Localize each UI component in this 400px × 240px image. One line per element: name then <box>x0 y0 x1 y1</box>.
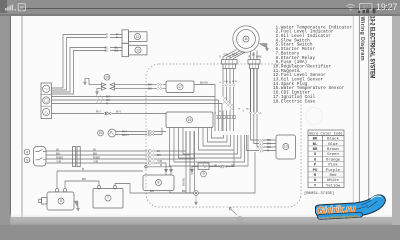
svg-text:G: G <box>215 113 217 115</box>
swoosh spray highlights <box>371 196 382 200</box>
Y/R wire to relay <box>154 163 167 175</box>
svg-text:6: 6 <box>60 199 62 203</box>
connector marks right bundle <box>249 112 261 114</box>
CDI igniter (16) <box>166 112 213 128</box>
harness weave crossing <box>223 97 234 111</box>
sensor 12 connector cap <box>122 43 129 56</box>
svg-text:10: 10 <box>284 145 288 149</box>
indicator 3 oil <box>43 108 50 115</box>
svg-text:BL: BL <box>313 143 318 147</box>
svg-text:17: 17 <box>178 85 182 89</box>
svg-text:BK: BK <box>313 138 318 142</box>
plug 2 ground wire <box>97 88 102 92</box>
svg-text:11: 11 <box>244 37 248 41</box>
svg-text:BK/R: BK/R <box>232 81 238 83</box>
spark plug 2 connector arrows <box>102 87 115 91</box>
electric case leader arrow <box>229 208 237 216</box>
svg-text:27: 27 <box>363 5 368 10</box>
spark plug callout circle 14 <box>104 74 110 80</box>
svg-text:19:27: 19:27 <box>376 2 397 12</box>
meter cluster box (1)(2)(3) <box>41 83 52 119</box>
battery (7) <box>93 189 123 209</box>
battery terminals <box>97 186 100 189</box>
harness chevron connector <box>96 95 103 104</box>
svg-text:Y/R: Y/R <box>93 159 99 163</box>
cluster bus wires up-right to sensor connectors <box>52 35 107 89</box>
status bar <box>0 0 400 15</box>
water temp sensor (15) <box>98 130 104 136</box>
regulator input connectors <box>260 139 264 152</box>
svg-text:9: 9 <box>203 172 205 176</box>
component number labels <box>26 35 288 203</box>
right bundle down to regulator <box>251 114 260 147</box>
svg-text:[B0051-3715E]: [B0051-3715E] <box>304 191 334 196</box>
svg-text:G: G <box>243 111 245 113</box>
page left border line <box>21 8 23 217</box>
regulator/rectifier (10) <box>276 135 296 159</box>
right bundle heavy cable <box>251 69 258 113</box>
indicator 2 fuel <box>43 97 50 104</box>
svg-text:15: 15 <box>99 131 103 135</box>
svg-text:G: G <box>219 82 221 84</box>
CDI bottom harness nest <box>170 128 249 167</box>
svg-text:R/Y: R/Y <box>116 110 121 114</box>
sidebar rules <box>353 16 369 206</box>
extra R feed to regulator <box>247 135 260 151</box>
screenshot icon <box>18 4 25 11</box>
svg-text:Y/R: Y/R <box>56 159 62 163</box>
starter relay (8) <box>143 175 174 191</box>
page top shadow under status bar <box>10 8 392 16</box>
magneto ground <box>259 44 269 52</box>
wire color code table <box>308 130 344 188</box>
Gidrik.ru watermark swoosh body <box>315 195 385 219</box>
magneto right connector housing <box>248 60 260 65</box>
svg-text:R/BK: R/BK <box>256 56 262 59</box>
motor BK to battery <box>65 181 99 189</box>
cluster long runs to harness <box>52 97 223 104</box>
svg-text:14: 14 <box>105 75 109 79</box>
svg-text:P: P <box>106 36 108 40</box>
svg-text:7: 7 <box>107 196 109 200</box>
svg-text:R: R <box>249 56 251 59</box>
svg-text:13-2 ELECTRICAL SYSTEM: 13-2 ELECTRICAL SYSTEM <box>369 16 376 79</box>
magneto right wire fan <box>251 51 258 61</box>
relay BK to ground node <box>170 191 194 194</box>
svg-text:16: 16 <box>188 118 192 122</box>
svg-text:PU: PU <box>313 169 318 173</box>
sensor 13 body <box>129 32 148 42</box>
banner <box>317 212 362 219</box>
svg-text:Wiring Diagram: Wiring Diagram <box>359 17 365 61</box>
svg-text:Red: Red <box>329 173 336 178</box>
ground node <box>194 191 199 196</box>
relay to fuse wire <box>191 167 198 176</box>
svg-text:BK/Y: BK/Y <box>122 133 129 137</box>
right viewer strip <box>392 15 400 225</box>
spark plug 1 connector arrows <box>102 83 115 87</box>
svg-text:BL: BL <box>115 49 119 53</box>
svg-text:White: White <box>327 178 339 183</box>
magneto left connector housing <box>222 60 238 65</box>
starter motor (6) <box>47 192 74 210</box>
svg-text:Pink: Pink <box>328 163 338 168</box>
fuse output R wire <box>209 151 234 167</box>
connector block <box>73 147 76 167</box>
sensor 12 body <box>129 45 148 55</box>
svg-text:Blue: Blue <box>328 142 338 147</box>
ghost stamp circle <box>306 108 323 125</box>
wifi icon <box>347 5 355 9</box>
svg-text:Wire Color Code: Wire Color Code <box>310 131 344 136</box>
svg-text:12: 12 <box>136 48 140 52</box>
magneto left wire fan <box>223 50 245 61</box>
svg-text:Black: Black <box>327 137 339 142</box>
svg-text:Green: Green <box>327 153 339 157</box>
svg-text:5: 5 <box>26 158 28 162</box>
electric case (18) dashed boundary <box>146 64 301 207</box>
harness mid labels <box>215 81 250 115</box>
svg-text:Orange: Orange <box>326 158 341 162</box>
slow switch (4) / start switch (5) <box>24 149 30 155</box>
svg-text:G: G <box>219 56 221 59</box>
fuse (9) <box>198 163 209 170</box>
svg-text:Purple: Purple <box>326 168 341 173</box>
signal bars icon <box>5 4 16 10</box>
svg-text:BK/BL: BK/BL <box>182 177 186 186</box>
battery BK+ cable to ground bus <box>115 184 194 194</box>
ground arrow below node <box>195 195 198 205</box>
magneto lead labels <box>219 54 262 59</box>
svg-text:18.Electric Case: 18.Electric Case <box>273 99 316 104</box>
svg-text:P: P <box>116 36 118 40</box>
ignition coil (17) <box>166 81 194 93</box>
legend list <box>273 25 352 104</box>
fuel level sensor (12) lead wires <box>110 48 122 51</box>
svg-text:R/Y: R/Y <box>96 110 101 114</box>
svg-text:Yellow: Yellow <box>326 183 341 188</box>
svg-text:BK/R: BK/R <box>232 54 238 57</box>
svg-text:8: 8 <box>158 181 160 185</box>
switch wires into harness verticals <box>154 131 194 159</box>
motor terminals <box>55 189 58 192</box>
svg-text:BL: BL <box>105 49 109 53</box>
svg-text:BR: BR <box>313 148 318 152</box>
plug leads to ignition coil <box>115 85 158 89</box>
svg-text:BK/W: BK/W <box>200 81 208 85</box>
dark overlay glyphs <box>358 9 375 14</box>
svg-text:Brown: Brown <box>327 148 339 152</box>
battery/percent icon <box>360 4 373 11</box>
motor ground <box>74 201 80 211</box>
plug 1 ground wire <box>85 78 102 84</box>
switch wires to connector block <box>46 151 147 163</box>
svg-text:4: 4 <box>26 150 28 154</box>
svg-text:13: 13 <box>136 35 140 39</box>
R/Y meter wire with connector <box>52 113 105 115</box>
inline connectors on left bundle <box>222 85 235 87</box>
sensor 13 connector cap <box>122 30 129 43</box>
indicator 1 water temp <box>43 85 50 92</box>
battery R cable to relay <box>57 171 143 189</box>
node 18 label <box>237 217 243 223</box>
long BK ground bus <box>198 152 255 193</box>
left viewer strip <box>0 15 10 225</box>
R wire to relay coil <box>145 166 173 176</box>
magneto (11) <box>233 26 259 52</box>
coil output BK/W wire <box>194 85 215 97</box>
connector stack on harness <box>216 116 236 119</box>
BK/BL ground drop wires <box>186 131 195 193</box>
magneto left bundle down <box>223 69 234 85</box>
oil level sensor (13) lead wires <box>110 35 122 38</box>
inline connectors on switch wires <box>148 150 155 165</box>
